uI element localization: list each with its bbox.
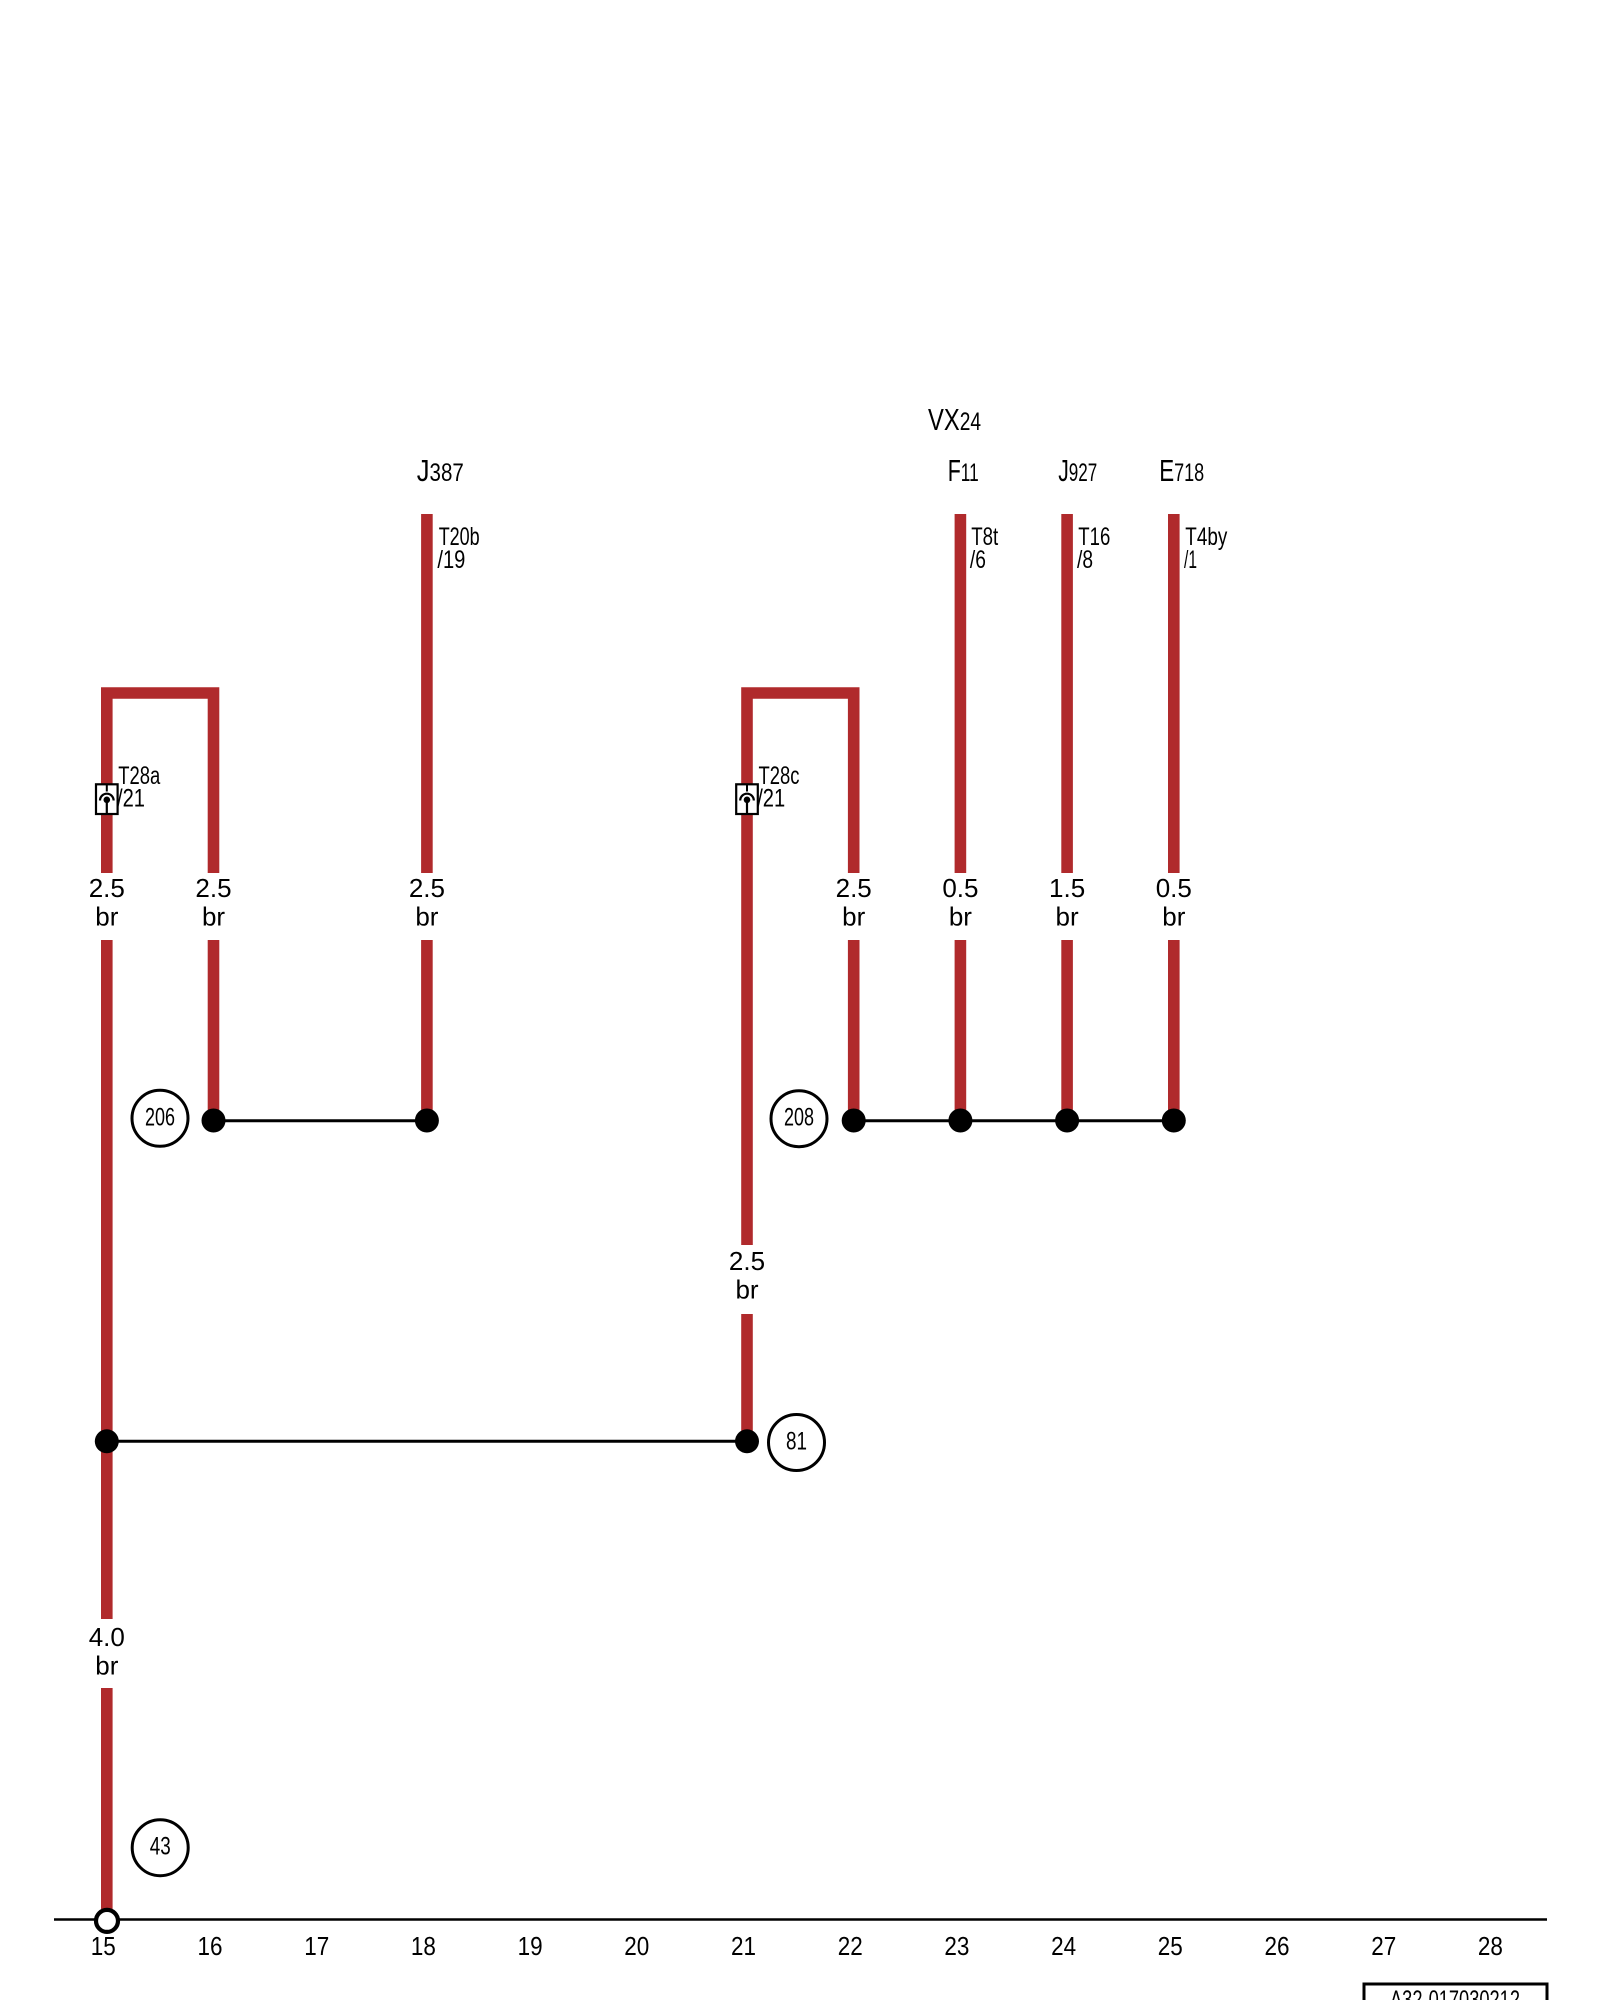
node 206 junction dot left bbox=[202, 1109, 226, 1133]
svg-text:2.5: 2.5 bbox=[195, 873, 231, 903]
wire gauge label 2.5 br at c21 bbox=[729, 1246, 765, 1305]
wire: J927 lead upper bbox=[1061, 514, 1073, 873]
wire: J387 lead upper bbox=[421, 514, 433, 873]
svg-text:A32-017030212: A32-017030212 bbox=[1390, 1986, 1520, 2000]
svg-text:25: 25 bbox=[1158, 1931, 1183, 1961]
wire gauge label 0.5 br at c23 bbox=[942, 873, 978, 932]
wire: c15 bottom segment to terminal 43 bbox=[101, 1688, 113, 1909]
svg-text:2.5: 2.5 bbox=[89, 873, 125, 903]
svg-text:br: br bbox=[95, 1651, 118, 1681]
connector T28a label bbox=[117, 762, 160, 813]
svg-text:2.5: 2.5 bbox=[836, 873, 872, 903]
wire gauge label 2.5 br at c22 bbox=[836, 873, 872, 932]
svg-text:23: 23 bbox=[944, 1931, 969, 1961]
wire gauge label 2.5 br at c18 bbox=[409, 873, 445, 932]
svg-text:24: 24 bbox=[1051, 1931, 1076, 1961]
wire gauge label 2.5 br at c16 bbox=[195, 873, 231, 932]
svg-text:27: 27 bbox=[1371, 1931, 1396, 1961]
pin label T4by/1 bbox=[1184, 523, 1228, 574]
svg-text:20: 20 bbox=[624, 1931, 649, 1961]
part number box A32-017030212 bbox=[1364, 1984, 1547, 2000]
svg-text:/8: /8 bbox=[1077, 546, 1093, 574]
svg-text:22: 22 bbox=[838, 1931, 863, 1961]
svg-text:4.0: 4.0 bbox=[89, 1622, 125, 1652]
svg-text:VX24: VX24 bbox=[928, 402, 981, 437]
svg-text:18: 18 bbox=[411, 1931, 436, 1961]
svg-text:br: br bbox=[842, 902, 865, 932]
svg-text:br: br bbox=[735, 1275, 758, 1305]
svg-text:0.5: 0.5 bbox=[942, 873, 978, 903]
svg-text:28: 28 bbox=[1478, 1931, 1503, 1961]
track numbers 15-28 bbox=[91, 1931, 1503, 1961]
wire gauge label 0.5 br at c25 bbox=[1156, 873, 1192, 932]
node 206 circle label bbox=[132, 1090, 188, 1146]
svg-text:br: br bbox=[1162, 902, 1185, 932]
svg-text:/21: /21 bbox=[757, 785, 785, 813]
svg-text:206: 206 bbox=[145, 1103, 175, 1131]
node 81 junction dot left bbox=[95, 1429, 119, 1453]
svg-text:26: 26 bbox=[1265, 1931, 1290, 1961]
svg-text:/21: /21 bbox=[117, 785, 145, 813]
svg-text:17: 17 bbox=[304, 1931, 329, 1961]
wire: left loop c15-c16 (2.5 br, via T28a) bbox=[107, 693, 214, 873]
wire gauge label 1.5 br at c24 bbox=[1049, 873, 1085, 932]
wire: F11 lead lower to node 208 bbox=[955, 940, 967, 1120]
svg-text:15: 15 bbox=[91, 1931, 116, 1961]
node 81 bus line bbox=[107, 1440, 747, 1443]
svg-text:J927: J927 bbox=[1058, 453, 1097, 488]
svg-text:E718: E718 bbox=[1159, 453, 1204, 488]
svg-text:/1: /1 bbox=[1184, 546, 1197, 574]
svg-text:16: 16 bbox=[198, 1931, 223, 1961]
node 208 circle label bbox=[771, 1091, 827, 1147]
svg-text:43: 43 bbox=[150, 1833, 171, 1861]
svg-text:br: br bbox=[202, 902, 225, 932]
svg-text:br: br bbox=[949, 902, 972, 932]
node 208 junction dot c23 bbox=[948, 1109, 972, 1133]
node 206 junction dot right bbox=[415, 1109, 439, 1133]
pin label T16/8 bbox=[1077, 523, 1110, 574]
svg-text:2.5: 2.5 bbox=[729, 1246, 765, 1276]
wire: E718 lead upper bbox=[1168, 514, 1180, 873]
node 208 junction dot c24 bbox=[1055, 1109, 1079, 1133]
pin label T8t/6 bbox=[970, 523, 998, 574]
svg-text:F11: F11 bbox=[948, 453, 979, 488]
node 208 junction dot c22 bbox=[842, 1109, 866, 1133]
terminal ring at track 15 bbox=[96, 1910, 118, 1932]
wire: J387 lead lower to node 206 bbox=[421, 940, 433, 1120]
node 208 bus line bbox=[854, 1119, 1174, 1122]
node 208 junction dot c25 bbox=[1162, 1109, 1186, 1133]
wire gauge label 4.0 br at c15 bbox=[89, 1622, 125, 1681]
svg-text:19: 19 bbox=[518, 1931, 543, 1961]
svg-text:81: 81 bbox=[786, 1428, 807, 1456]
wire: E718 lead lower to node 208 bbox=[1168, 940, 1180, 1120]
wire: F11 lead upper bbox=[955, 514, 967, 873]
wire: right loop c21-c22 (2.5 br, via T28c) bbox=[747, 693, 854, 1245]
svg-text:br: br bbox=[415, 902, 438, 932]
svg-text:21: 21 bbox=[731, 1931, 756, 1961]
connector T28c label bbox=[757, 762, 799, 813]
wire: c15 segment node81 to 4.0 label bbox=[101, 940, 113, 1619]
wire: c21 segment to node 81 bbox=[741, 1314, 753, 1441]
svg-text:2.5: 2.5 bbox=[409, 873, 445, 903]
wire: c22 segment to node 208 bbox=[848, 940, 860, 1120]
svg-text:/6: /6 bbox=[970, 546, 986, 574]
svg-text:/19: /19 bbox=[437, 546, 465, 574]
svg-text:208: 208 bbox=[784, 1104, 814, 1132]
pin label T20b/19 bbox=[437, 523, 479, 574]
current track axis line bbox=[54, 1918, 1547, 1921]
wire gauge label 2.5 br at c15 bbox=[89, 873, 125, 932]
svg-text:1.5: 1.5 bbox=[1049, 873, 1085, 903]
node 43 circle label bbox=[132, 1820, 188, 1876]
connector T28a symbol bbox=[96, 784, 118, 814]
svg-text:br: br bbox=[95, 902, 118, 932]
node 81 junction dot right bbox=[735, 1429, 759, 1453]
node 81 circle label bbox=[769, 1415, 825, 1471]
svg-text:J387: J387 bbox=[417, 453, 464, 488]
node 206 bus line bbox=[214, 1119, 427, 1122]
svg-text:0.5: 0.5 bbox=[1156, 873, 1192, 903]
svg-text:br: br bbox=[1056, 902, 1079, 932]
wire: J927 lead lower to node 208 bbox=[1061, 940, 1073, 1120]
connector T28c symbol bbox=[736, 784, 758, 814]
wire: c16 segment to node 206 bbox=[208, 940, 220, 1120]
